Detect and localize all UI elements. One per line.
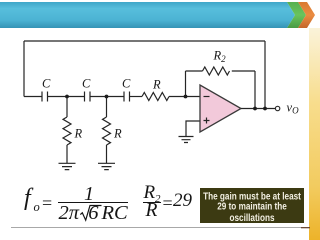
wire: C3 to series R [130,96,143,98]
node: junction of C1/C2 and first shunt R [65,95,69,99]
op-amp non-inverting pin mark [204,118,210,124]
decorative green chevron [287,2,306,28]
wire: shunt R2 bottom lead [106,145,108,163]
node: output / R2 junction [253,107,257,111]
wire: series R to op-amp inverting input [169,96,200,98]
op-amp inverting pin mark [204,96,210,98]
terminal: output circle [275,106,279,110]
svg-text:vO: vO [287,101,300,116]
svg-text:C: C [122,77,131,91]
resistor R (second shunt) [103,117,111,145]
wire: non-inverting input to ground [186,121,200,136]
op-amp U1 body [200,85,241,132]
radical sign of sqrt(6) in formula [80,206,101,221]
capacitor C (first) [42,92,48,102]
svg-text:R: R [74,127,83,141]
wire: C1 to C2 [48,96,85,98]
resistor R2 [203,67,230,75]
wire: right feedback riser [264,41,266,109]
decorative right gold strip [309,28,320,240]
wire: input to C1 [24,96,42,98]
wire: R2 drop to output [254,71,256,109]
wire: op-amp output [241,108,275,110]
wire: left feedback drop [23,41,25,97]
wire: shunt R1 top lead [66,97,68,118]
node: output / feedback junction [263,107,267,111]
wire: top feedback run [24,40,265,42]
formula: fo = 1/(2*pi*sqrt(6)RC) [24,186,31,210]
ground (under first shunt R) [59,163,76,169]
decorative bottom rule [11,227,303,228]
svg-text:C: C [82,77,91,91]
wire: shunt R2 top lead [106,97,108,118]
resistor R (series) [142,93,169,101]
capacitor C (third) [124,92,130,102]
wire: C2 to C3 [90,96,124,98]
node: junction of C2/C3 and second shunt R [105,95,109,99]
decorative orange chevron [298,2,315,28]
decorative top banner (blue bar) [0,2,295,28]
formula: R2/R = 29 [144,183,156,202]
resistor R (first shunt) [63,117,71,145]
node: inverting input / R2 junction [184,95,188,99]
ground (under second shunt R) [98,163,115,169]
capacitor C (second) [85,92,91,102]
ground (op-amp non-inverting input) [179,137,194,143]
wire: R2 right lead [232,70,255,72]
svg-text:R: R [152,78,161,92]
wire: riser from inverting node to R2 [185,71,187,97]
wire: shunt R1 bottom lead [66,145,68,163]
svg-text:R: R [113,127,122,141]
callout: gain requirement note [200,188,304,223]
svg-text:R2: R2 [213,49,227,65]
svg-text:C: C [42,77,51,91]
wire: R2 left lead [186,70,203,72]
